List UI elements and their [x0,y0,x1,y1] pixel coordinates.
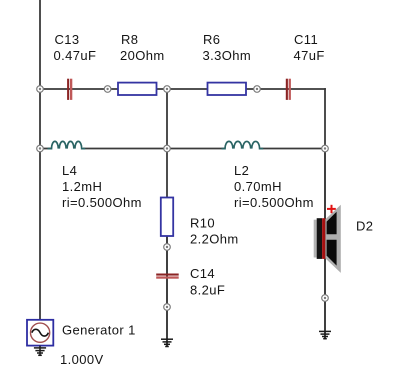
svg-text:ri=0.500Ohm: ri=0.500Ohm [62,195,142,210]
capacitor C14 [156,274,179,279]
svg-text:R6: R6 [203,32,220,47]
wire L2 to right node [261,148,326,150]
wire top stub left rail [39,0,41,89]
svg-text:20Ohm: 20Ohm [120,48,165,63]
node below C14 [164,304,171,311]
polarity plus of D2 [327,205,336,213]
svg-text:0.70mH: 0.70mH [234,179,282,194]
node at left rail row 2 [37,145,44,152]
node at left rail top row [37,86,44,93]
wire middle rail to R10 [166,149,168,198]
capacitor C11 [286,79,291,100]
svg-text:C13: C13 [55,32,80,47]
ground below generator [34,346,46,356]
node between R8 and R6 [164,86,171,93]
svg-text:2.2Ohm: 2.2Ohm [190,232,239,247]
svg-text:1.2mH: 1.2mH [62,179,102,194]
wire right rail to speaker and ground [324,149,326,340]
capacitor C13 [67,79,72,100]
svg-text:C14: C14 [190,266,215,281]
node middle junction row 2 [164,145,171,152]
svg-text:0.47uF: 0.47uF [54,48,97,63]
node right rail row 2 [322,145,329,152]
wire L4 to middle junction [83,148,167,150]
wire R10 through C14 to middle ground [166,236,168,347]
svg-text:ri=0.500Ohm: ri=0.500Ohm [234,195,314,210]
node between C13 and R8 [104,86,111,93]
svg-text:C11: C11 [294,32,318,47]
svg-text:R8: R8 [121,32,138,47]
ground below C14 [161,339,173,346]
inductor L4 [48,141,86,148]
svg-text:D2: D2 [356,219,373,234]
wire R8 to node C [157,88,208,90]
svg-text:R10: R10 [190,216,215,231]
inductor L2 [222,141,264,148]
resistor R10 [161,198,173,237]
svg-text:47uF: 47uF [294,48,325,63]
wire node to L4 [40,148,51,150]
svg-text:1.000V: 1.000V [60,352,104,367]
wire node A through C13 to R8 [40,88,118,90]
wire R6 through C11 to right corner [246,88,326,90]
wire right rail down [324,88,326,148]
generator Generator 1 [27,320,53,346]
svg-text:L2: L2 [234,163,249,178]
svg-text:Generator 1: Generator 1 [62,323,136,338]
wire middle rail top [166,89,168,149]
wire junction to L2 [167,148,225,150]
wire left rail to generator [39,149,41,320]
wire left rail between rows [39,89,41,149]
node below speaker [322,295,329,302]
resistor R6 [208,83,247,95]
resistor R8 [118,83,157,95]
node below R10 [164,244,171,251]
svg-text:8.2uF: 8.2uF [190,283,225,298]
ground below speaker [319,331,331,338]
node between R6 and C11 [254,86,261,93]
speaker D2 [314,205,341,273]
svg-text:L4: L4 [62,163,77,178]
svg-text:3.3Ohm: 3.3Ohm [203,48,252,63]
